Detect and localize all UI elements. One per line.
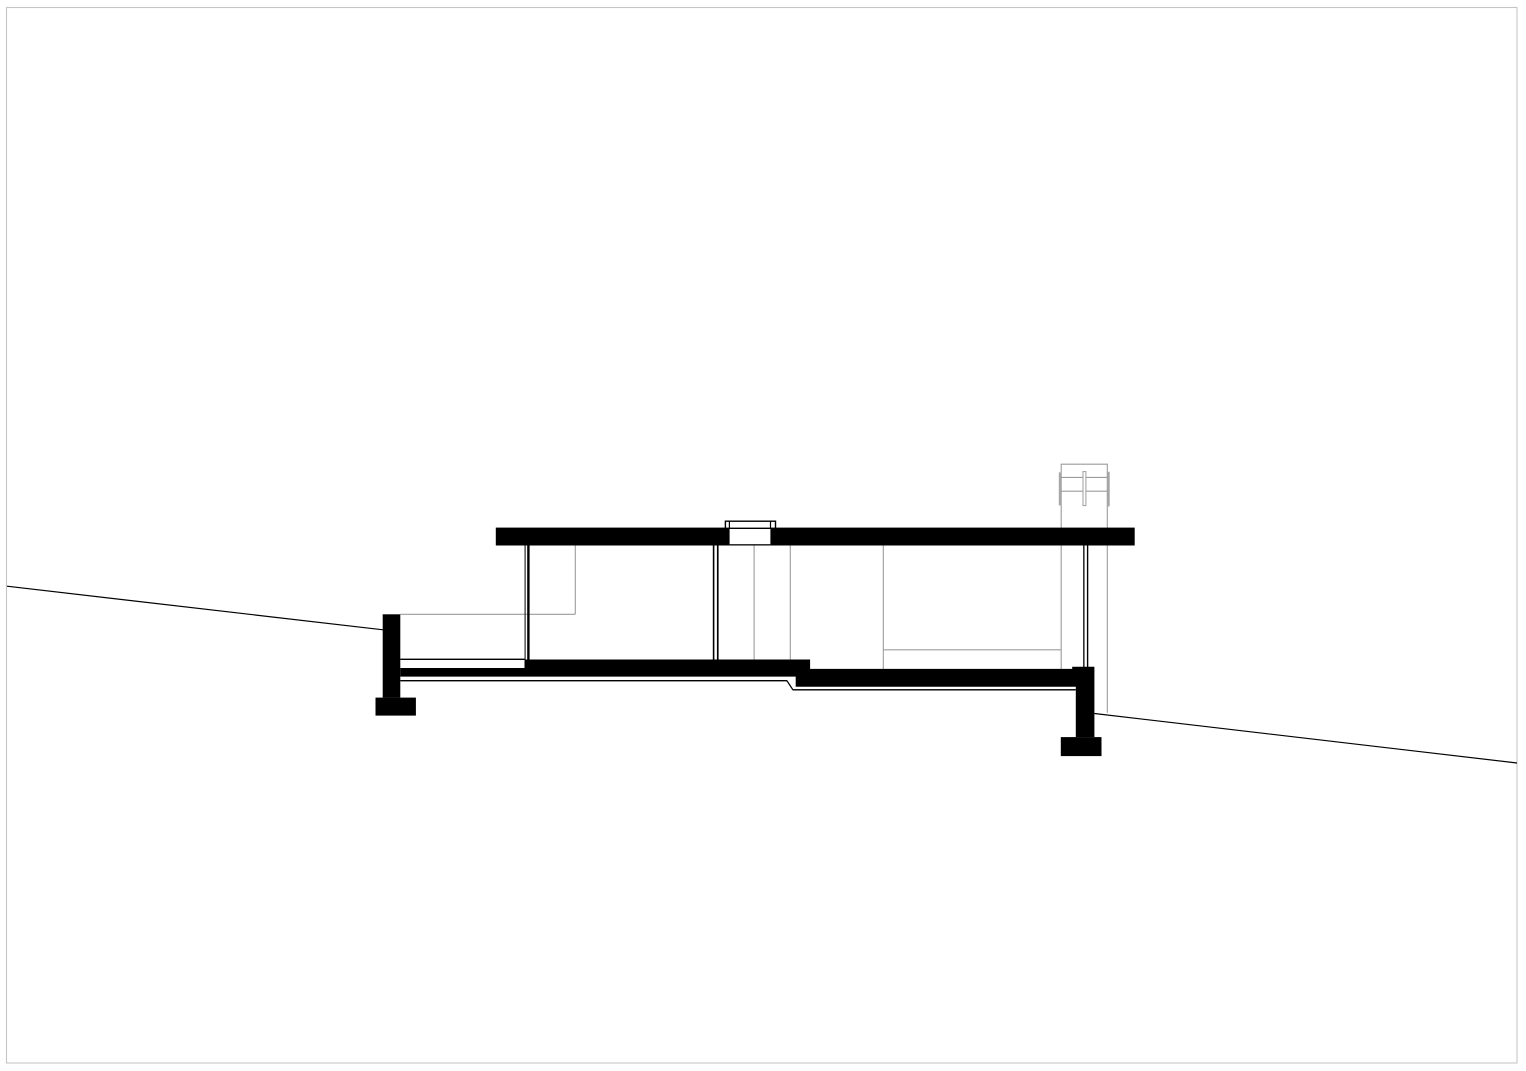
slab underside line upper xyxy=(400,680,787,681)
chimney top edge xyxy=(1061,463,1108,465)
window mullion B right line xyxy=(717,546,719,660)
chimney left end plate xyxy=(1059,472,1062,505)
roof slab left of skylight xyxy=(496,528,730,546)
ground line right xyxy=(1094,714,1517,764)
parapet top line (horizontal) xyxy=(400,613,575,615)
left retaining wall xyxy=(383,614,401,697)
interior glazing line 2 xyxy=(789,546,791,660)
chimney center flue bar xyxy=(1083,472,1086,506)
interior wall edge line (vertical) xyxy=(574,546,576,615)
skylight curb left cheek xyxy=(728,521,730,528)
roof slab right of skylight xyxy=(770,528,1134,546)
window mullion C right line xyxy=(1087,546,1088,670)
roof edge line under skylight opening xyxy=(730,544,771,545)
left wall footing xyxy=(376,698,416,716)
window mullion A right line xyxy=(527,546,529,660)
slab underside step diagonal xyxy=(787,681,793,690)
skylight curb right cheek xyxy=(770,521,772,528)
skylight curb xyxy=(725,521,775,528)
slab underside line lower xyxy=(793,689,1076,690)
chimney upper rail xyxy=(1061,476,1107,478)
right wall footing xyxy=(1061,737,1102,756)
chimney lower rail xyxy=(1061,490,1107,492)
window mullion A left line xyxy=(525,546,526,660)
chimney right end plate xyxy=(1107,472,1110,507)
window mullion C left line xyxy=(1083,546,1084,670)
interior glazing line 1 xyxy=(753,546,755,660)
chimney outer left line xyxy=(1060,464,1062,669)
kitchen counter top line xyxy=(883,649,1061,651)
chimney outer right line xyxy=(1106,464,1108,713)
window mullion B left line xyxy=(713,546,715,660)
interior wall line at kitchen xyxy=(882,546,884,670)
terrace deck line xyxy=(400,659,524,660)
floor slab with step and right wall xyxy=(400,660,1094,738)
ground line left xyxy=(7,586,383,630)
